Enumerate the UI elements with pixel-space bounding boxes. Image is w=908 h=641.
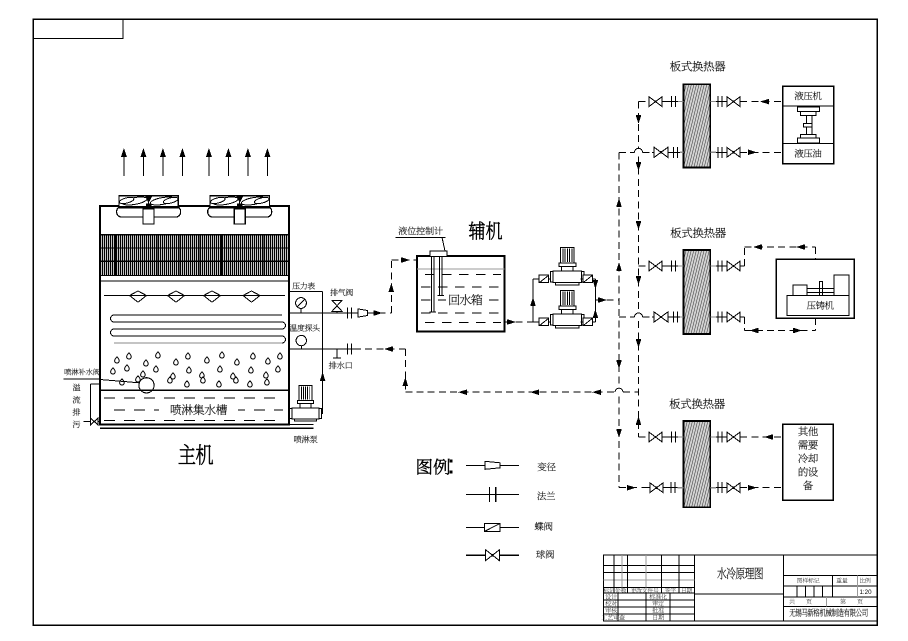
pump 1 discharge line [581,278,596,280]
legend flange line [466,494,519,496]
tank water line [417,268,505,270]
legend ball label [536,550,545,559]
return run to tower [405,391,615,393]
signature labels [605,594,611,600]
tower outlet pipe [289,312,368,314]
outlet pipe dashed to tank [368,312,392,314]
title block grid [604,555,877,621]
tank water dashes [425,274,435,276]
hx2 top-right piping [710,265,740,267]
hx1 bottom-left piping [619,151,634,153]
line below fill [100,280,289,282]
svg-text:1:20: 1:20 [859,589,872,596]
auxiliary machine label [469,222,485,240]
company name [790,609,796,617]
pump 1 inlet butterfly valve [539,275,549,283]
tower top deck line [100,205,117,207]
drawing title [717,567,726,579]
tower return pipe [289,348,354,350]
pressure gauge [296,298,307,309]
pump 1 outlet butterfly valve [583,275,593,283]
plate heat exchanger 2 [684,250,711,334]
pump 1 [561,248,574,264]
fan unit 2 [210,196,269,208]
legend flange label [537,491,546,500]
hx3 bottom-right piping [710,487,740,489]
hx3 top-right piping [710,436,740,438]
sheet labels [789,599,795,605]
temperature probe label [290,324,297,331]
main machine label [179,444,195,464]
legend reducer line [466,464,519,466]
pump discharge manifold [594,279,596,322]
pressure gauge label [292,282,299,289]
legend ball line [466,554,519,556]
other equipment box [783,424,834,500]
air flow arrows above tower [123,154,125,177]
heat exchange coil [111,315,286,343]
reducer on outlet [358,309,368,317]
pump 2 outlet butterfly valve [583,318,593,326]
plate heat exchanger 1 label [670,61,681,72]
basin label [159,403,238,418]
hydraulic oil label [795,149,804,158]
pump 2 [561,291,574,307]
legend ball symbol [486,550,500,561]
level controller label [399,227,408,235]
pump 1 suction line [533,278,554,280]
tower shell [100,206,289,425]
hx2 bottom-right piping [710,316,740,318]
flange on outlet [347,308,349,319]
spray collection basin [100,389,289,391]
return water tank [417,256,505,332]
temperature probe [296,335,306,345]
drain port [336,349,338,358]
hx2 top-left piping [639,265,651,267]
spray pump discharge pipe [322,349,324,414]
plate heat exchanger 3 [684,421,711,507]
hx1 bottom-right piping [710,151,740,153]
hx3 bottom-left piping [619,487,648,489]
die casting machine label [807,301,816,309]
plate heat exchanger 3 label [670,398,681,409]
vent valve label [330,289,337,296]
vent valve [332,300,342,311]
float valve [100,380,139,383]
frame corner block [33,19,123,39]
mark weight scale labels [797,578,802,583]
legend reducer symbol [485,461,500,469]
hx2 bottom-left piping [619,316,634,318]
tank label [446,293,484,307]
hx1 top-right piping [710,101,740,103]
instrument box [289,291,323,293]
hx1 top-left piping [639,101,651,103]
hydraulic press icon [797,107,819,112]
legend butterfly line [466,526,519,528]
supply header [618,152,620,388]
hx3 top-left piping [639,436,651,438]
pump 2 discharge line [581,321,596,323]
revision header labels [603,588,608,593]
makeup valve label [65,369,72,376]
fan unit 1 [119,196,178,208]
pump 2 suction line [533,321,554,323]
tank outlet pipe [505,321,534,323]
hydraulic press box [783,86,834,164]
right block grid [783,574,877,576]
die casting machine box [776,259,854,318]
legend title [418,459,432,475]
return header [638,102,640,148]
title cell divider [694,593,783,595]
legend butterfly label [535,522,544,531]
pump suction manifold [532,279,534,322]
overflow drain pipe [90,384,92,422]
plate heat exchanger 2 label [671,227,682,238]
overflow drain label [73,384,81,391]
other equipment label [798,427,808,437]
spray pump label [294,436,301,444]
die casting machine icon [787,296,849,316]
hydraulic press label [795,91,804,100]
legend butterfly symbol [485,523,501,531]
spray header and nozzles [104,295,285,297]
overflow drain valve [91,418,99,425]
basin bottom extension [100,427,314,429]
water droplets [115,357,120,363]
pump 2 inlet butterfly valve [539,318,549,326]
legend flange symbol [489,487,491,502]
pump outlet pipe to header [595,299,619,301]
return pipe dashed [354,348,405,350]
legend reducer label [538,462,547,471]
spray pump [299,386,312,401]
tank level sensor [430,251,447,257]
plate heat exchanger 1 [684,84,711,167]
fill media block [101,235,289,276]
